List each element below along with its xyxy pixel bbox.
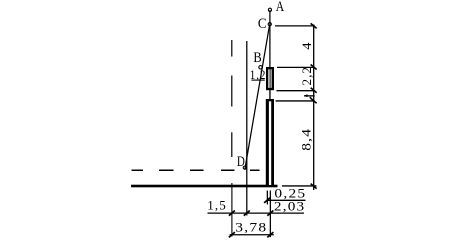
svg-text:C: C xyxy=(258,16,267,32)
svg-text:D: D xyxy=(237,154,245,170)
svg-text:A: A xyxy=(276,0,284,15)
svg-text:4: 4 xyxy=(300,41,314,49)
svg-text:2,03: 2,03 xyxy=(274,200,306,214)
svg-text:0,25: 0,25 xyxy=(274,186,306,200)
svg-text:B: B xyxy=(253,50,261,66)
svg-text:1,5: 1,5 xyxy=(207,199,227,213)
svg-text:8,4: 8,4 xyxy=(300,128,314,151)
svg-text:1,2: 1,2 xyxy=(250,68,266,82)
svg-text:2,2: 2,2 xyxy=(300,66,314,86)
svg-text:3,78: 3,78 xyxy=(235,220,267,234)
